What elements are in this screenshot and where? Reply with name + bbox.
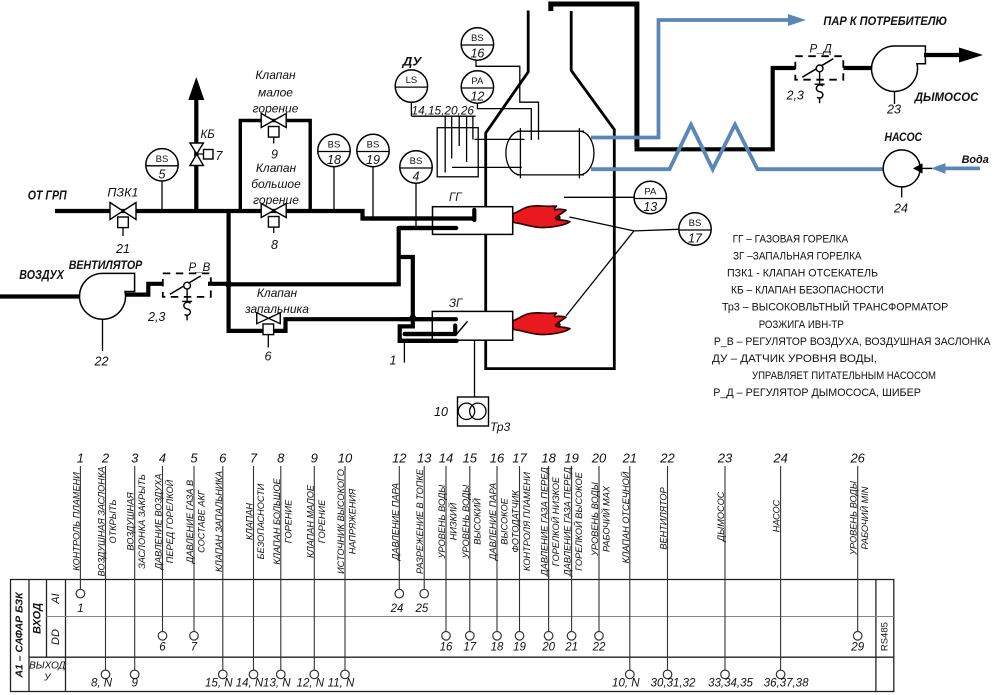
regulator Р_В (147, 262, 211, 324)
flame ГГ (513, 206, 570, 228)
svg-text:BS: BS (689, 218, 702, 229)
svg-text:КЛАПАН ОТСЕЧНОЙ: КЛАПАН ОТСЕЧНОЙ (620, 471, 631, 563)
node signal column 16 (488, 451, 510, 654)
svg-text:ЗГ: ЗГ (449, 298, 463, 310)
node signal column 3 (126, 451, 148, 690)
svg-text:22: 22 (659, 451, 675, 466)
svg-text:6: 6 (265, 350, 272, 364)
arrow КБ vent (189, 79, 204, 100)
svg-text:21: 21 (564, 642, 578, 654)
pipe main gas line from ОТ ГРП (55, 211, 474, 219)
svg-text:3: 3 (131, 451, 139, 466)
svg-text:9: 9 (311, 451, 318, 466)
svg-text:12: 12 (470, 90, 484, 104)
svg-text:18: 18 (327, 153, 341, 167)
wire BS16 stem (476, 60, 539, 139)
svg-text:BS: BS (367, 140, 380, 151)
svg-text:Тр3 – ВЫСОКОВЛЬТНЫЙ ТРАНСФОРМА: Тр3 – ВЫСОКОВЛЬТНЫЙ ТРАНСФОРМАТОР (722, 301, 948, 314)
table AI/DD divider (47, 616, 894, 618)
svg-text:Тр3: Тр3 (490, 420, 511, 434)
svg-text:9: 9 (131, 678, 138, 690)
node signal column 4 (154, 451, 176, 654)
svg-text:ДУ: ДУ (401, 55, 422, 69)
svg-text:BS: BS (471, 33, 484, 44)
svg-text:16: 16 (440, 642, 453, 654)
node signal column 1 (71, 451, 84, 616)
node signal column 14 (437, 451, 459, 654)
svg-text:7: 7 (216, 149, 224, 163)
node signal column 13 (415, 451, 433, 616)
svg-text:1: 1 (77, 603, 83, 615)
svg-text:УРОВЕНЬ ВОДЫ: УРОВЕНЬ ВОДЫ (590, 481, 600, 557)
svg-text:8: 8 (277, 451, 285, 466)
instrument BS17 (679, 213, 711, 246)
svg-text:Р_В: Р_В (189, 262, 211, 274)
svg-text:Клапан: Клапан (256, 161, 297, 175)
svg-text:24: 24 (390, 603, 404, 615)
svg-text:ВЕНТИЛЯТОР: ВЕНТИЛЯТОР (659, 486, 669, 549)
svg-text:ДАВЛЕНИЕ ГАЗА В: ДАВЛЕНИЕ ГАЗА В (185, 480, 195, 564)
svg-text:ВЫСОКИЙ: ВЫСОКИЙ (471, 498, 482, 545)
svg-text:РАБОЧИЙ MIN: РАБОЧИЙ MIN (859, 486, 870, 549)
chimney cap thick (551, 4, 637, 147)
svg-text:ВХОД: ВХОД (32, 603, 44, 634)
wire BS5 stem (161, 181, 163, 211)
pump НАСОС (883, 130, 932, 215)
pipe ЗГ pipes over box (400, 319, 457, 341)
svg-text:6: 6 (219, 451, 227, 466)
svg-text:ГОРЕЛКОЙ НИЗКОЕ: ГОРЕЛКОЙ НИЗКОЕ (550, 476, 561, 566)
svg-text:19: 19 (513, 642, 526, 654)
steam line to consumer (blue) (591, 20, 788, 138)
svg-text:18: 18 (491, 642, 504, 654)
svg-text:23: 23 (717, 451, 733, 466)
svg-text:ДАВЛЕНИЕ ПАРА: ДАВЛЕНИЕ ПАРА (488, 483, 498, 561)
junction dot air/gas (225, 281, 232, 288)
svg-text:ПЗК1 - КЛАПАН ОТСЕКАТЕЛЬ: ПЗК1 - КЛАПАН ОТСЕКАТЕЛЬ (727, 268, 878, 280)
pipe ЗГ lower manifold (400, 319, 457, 341)
pipe ГГ pipes over box (363, 210, 475, 228)
node signal column 5 (185, 451, 207, 654)
svg-text:запальника: запальника (244, 302, 309, 316)
svg-text:1: 1 (77, 451, 84, 466)
instrument BS19 (357, 134, 389, 167)
instrument PA12 (461, 71, 493, 104)
svg-text:малое: малое (258, 86, 293, 100)
wire BS19 stem (372, 167, 374, 219)
svg-text:2,3: 2,3 (147, 310, 165, 324)
node signal column 21 (612, 451, 640, 690)
svg-text:ПЕРЕД ГОРЕЛКОЙ: ПЕРЕД ГОРЕЛКОЙ (164, 479, 175, 563)
svg-text:ПАР К ПОТРЕБИТЕЛЮ: ПАР К ПОТРЕБИТЕЛЮ (823, 14, 947, 28)
svg-text:ДЫМОСОС: ДЫМОСОС (716, 491, 726, 542)
svg-text:10, N: 10, N (612, 678, 640, 690)
svg-text:ГОРЕНИЕ: ГОРЕНИЕ (317, 499, 327, 543)
burner ГГ box (433, 207, 513, 235)
svg-text:ВОЗДУШНАЯ: ВОЗДУШНАЯ (126, 492, 136, 551)
instrument BS4 (400, 151, 432, 184)
svg-text:ПЗК1: ПЗК1 (107, 188, 138, 200)
node 14,15,20,26 sensor bundle (412, 116, 525, 177)
svg-text:30,31,32: 30,31,32 (651, 678, 696, 690)
svg-text:17: 17 (463, 642, 476, 654)
feedwater line with economizer zigzag (blue) (591, 125, 883, 170)
svg-text:ДАВЛЕНИЕ ПАРА: ДАВЛЕНИЕ ПАРА (390, 483, 400, 561)
svg-text:КЛАПАН БОЛЬШОЕ: КЛАПАН БОЛЬШОЕ (272, 478, 282, 565)
svg-text:14: 14 (439, 451, 453, 466)
svg-text:26: 26 (849, 451, 865, 466)
node signal column 22 (651, 451, 696, 690)
svg-text:НАСОС: НАСОС (772, 499, 782, 532)
valve Клапан малое горение (261, 114, 286, 162)
wire stem to 1 (403, 341, 405, 363)
svg-text:большое: большое (251, 177, 301, 191)
svg-text:ОТКРЫТЬ: ОТКРЫТЬ (108, 499, 118, 543)
node signal column 19 (563, 451, 585, 654)
svg-text:горение: горение (253, 193, 299, 207)
node signal column 24 (764, 451, 809, 690)
svg-text:13: 13 (417, 451, 432, 466)
svg-text:ДАВЛЕНИЕ ГАЗА ПЕРЕД: ДАВЛЕНИЕ ГАЗА ПЕРЕД (540, 467, 550, 577)
svg-text:RS485: RS485 (879, 622, 890, 651)
svg-text:РАЗРЕЖЕНИЕ В ТОПКЕ: РАЗРЕЖЕНИЕ В ТОПКЕ (415, 468, 425, 574)
node signal column 8 (263, 451, 293, 690)
svg-text:33,34,35: 33,34,35 (708, 678, 753, 690)
svg-text:4: 4 (413, 170, 420, 184)
svg-text:КБ – КЛАПАН БЕЗОПАСНОСТИ: КБ – КЛАПАН БЕЗОПАСНОСТИ (731, 285, 884, 297)
svg-text:BS: BS (328, 140, 341, 151)
svg-text:4: 4 (159, 451, 166, 466)
svg-text:5: 5 (190, 451, 198, 466)
svg-text:17: 17 (512, 451, 527, 466)
svg-text:7: 7 (250, 451, 258, 466)
svg-text:УРОВЕНЬ ВОДЫ: УРОВЕНЬ ВОДЫ (461, 484, 471, 560)
svg-text:ОТ ГРП: ОТ ГРП (28, 189, 68, 203)
svg-text:КЛАПАН ЗАПАЛЬНИКА: КЛАПАН ЗАПАЛЬНИКА (214, 471, 224, 572)
node signal column 2 (91, 451, 118, 690)
svg-text:РОЗЖИГА ИВН-ТР: РОЗЖИГА ИВН-ТР (759, 319, 844, 331)
boiler drum (506, 128, 594, 178)
svg-text:Р_Д – РЕГУЛЯТОР ДЫМОСОСА, ШИБЕ: Р_Д – РЕГУЛЯТОР ДЫМОСОСА, ШИБЕР (713, 387, 921, 399)
svg-text:24: 24 (893, 202, 908, 216)
svg-text:22: 22 (94, 355, 109, 369)
table header texts (13, 591, 890, 684)
valve Клапан большое горение (261, 204, 286, 253)
node signal column 26 (849, 451, 871, 654)
svg-text:ГОРЕЛКОЙ ВЫСОКОЕ: ГОРЕЛКОЙ ВЫСОКОЕ (573, 471, 584, 570)
wire LS stem (410, 102, 412, 116)
svg-text:15: 15 (463, 451, 478, 466)
wire BS17 leads (566, 217, 678, 316)
regulator Р_Д (786, 44, 844, 104)
svg-text:36,37,38: 36,37,38 (764, 678, 809, 690)
svg-text:6: 6 (159, 642, 166, 654)
svg-text:PA: PA (644, 187, 657, 198)
node signal column 10 (328, 451, 358, 690)
svg-text:Клапан: Клапан (255, 68, 296, 82)
svg-text:КЛАПАН: КЛАПАН (245, 503, 255, 540)
instrument LS ДУ (395, 70, 427, 102)
node signal column 23 (708, 451, 753, 690)
svg-text:РАБОЧИЙ MAX: РАБОЧИЙ MAX (601, 485, 612, 552)
svg-text:7: 7 (191, 642, 198, 654)
svg-text:А1 – САФАР БЗК: А1 – САФАР БЗК (13, 591, 25, 679)
node signal column 15 (461, 451, 483, 654)
svg-text:КОНТРОЛЬ ПЛАМЕНИ: КОНТРОЛЬ ПЛАМЕНИ (71, 472, 81, 571)
instrument BS5 (146, 149, 178, 182)
wire BS4 stem (415, 183, 417, 227)
svg-text:НИЗКИЙ: НИЗКИЙ (448, 502, 459, 540)
svg-text:ФОТОДАТЧИК: ФОТОДАТЧИК (511, 490, 521, 553)
pipe КБ safety riser (194, 100, 198, 211)
svg-text:ВОЗДУХ: ВОЗДУХ (19, 268, 64, 282)
junction dot ЗГ pipe (409, 315, 416, 322)
svg-text:ЗАСЛОНКА ЗАКРЫТЬ: ЗАСЛОНКА ЗАКРЫТЬ (137, 474, 147, 569)
svg-text:14, N: 14, N (236, 678, 264, 690)
svg-text:LS: LS (406, 75, 418, 86)
pipe ЗГ middle (405, 326, 456, 335)
valve Клапан запальника (257, 313, 281, 324)
svg-text:9: 9 (271, 148, 278, 162)
transformer Тр3 (434, 397, 511, 434)
svg-text:13: 13 (643, 200, 657, 214)
instrument BS18 (318, 134, 350, 167)
svg-text:20: 20 (591, 451, 607, 466)
svg-text:25: 25 (415, 603, 429, 615)
node signal column 17 (511, 451, 533, 654)
svg-text:5: 5 (159, 167, 166, 181)
svg-text:ГГ – ГАЗОВАЯ ГОРЕЛКА: ГГ – ГАЗОВАЯ ГОРЕЛКА (733, 234, 849, 246)
svg-text:16: 16 (470, 47, 484, 61)
flue duct to Р_Д (635, 68, 796, 151)
svg-text:ИСТОЧНИК ВЫСОКОГО: ИСТОЧНИК ВЫСОКОГО (336, 469, 346, 574)
svg-text:УПРАВЛЯЕТ ПИТАТЕЛЬНЫМ НАСОСОМ: УПРАВЛЯЕТ ПИТАТЕЛЬНЫМ НАСОСОМ (752, 370, 936, 382)
wire PA13 lead (564, 196, 634, 198)
svg-text:13, N: 13, N (263, 678, 291, 690)
svg-text:PA: PA (471, 76, 484, 87)
node signal column 7 (236, 451, 266, 690)
svg-text:16: 16 (490, 451, 505, 466)
svg-text:24: 24 (772, 451, 787, 466)
pipe fan outlet to Р_В (121, 284, 164, 295)
fan ВЕНТИЛЯТОР (80, 273, 135, 319)
svg-text:КБ: КБ (201, 129, 216, 141)
node signal column 18 (540, 451, 562, 654)
svg-text:12, N: 12, N (297, 678, 325, 690)
svg-text:1: 1 (390, 354, 397, 368)
svg-text:УРОВЕНЬ ВОДЫ: УРОВЕНЬ ВОДЫ (437, 484, 447, 560)
svg-text:ГГ: ГГ (449, 192, 462, 204)
svg-text:УРОВЕНЬ ВОДЫ: УРОВЕНЬ ВОДЫ (849, 480, 859, 556)
svg-text:10: 10 (434, 405, 448, 419)
svg-text:ВОЗДУШНАЯ ЗАСЛОНКА: ВОЗДУШНАЯ ЗАСЛОНКА (97, 467, 107, 577)
svg-text:ДУ – ДАТЧИК УРОВНЯ ВОДЫ,: ДУ – ДАТЧИК УРОВНЯ ВОДЫ, (712, 353, 877, 365)
valve ПЗК1 (110, 203, 136, 257)
svg-text:2,3: 2,3 (786, 89, 804, 103)
svg-text:BS: BS (410, 156, 423, 167)
svg-text:Р_В – РЕГУЛЯТОР ВОЗДУХА, ВОЗДУ: Р_В – РЕГУЛЯТОР ВОЗДУХА, ВОЗДУШНАЯ ЗАСЛО… (714, 336, 991, 348)
svg-text:Клапан: Клапан (257, 286, 298, 300)
svg-text:ДЫМОСОС: ДЫМОСОС (914, 90, 979, 104)
svg-text:ВЫСОКОЕ: ВЫСОКОЕ (500, 497, 510, 544)
svg-text:29: 29 (850, 642, 864, 654)
pipe ГГ upper end upturn (472, 210, 476, 220)
valve запальника actuator square (263, 324, 274, 335)
svg-text:НАСОС: НАСОС (885, 130, 923, 144)
svg-text:СОСТАВЕ АКГ: СОСТАВЕ АКГ (197, 489, 207, 553)
pipe air duct from ВОЗДУХ (0, 294, 80, 298)
pipe Р_В to junction (208, 282, 229, 286)
controller table frame А1-САФАР БЗК (11, 580, 894, 692)
fan ДЫМОСОС (872, 46, 926, 91)
node signal column 6 (205, 451, 233, 690)
svg-text:19: 19 (366, 153, 380, 167)
node signal column 20 (590, 451, 612, 654)
igniter electrode slash (457, 321, 468, 334)
svg-text:23: 23 (886, 103, 901, 117)
svg-text:БЕЗОПАСНОСТИ: БЕЗОПАСНОСТИ (256, 483, 266, 559)
instrument BS16 (461, 28, 493, 61)
node signal column 9 (297, 451, 327, 690)
svg-text:Р_Д: Р_Д (810, 44, 832, 56)
svg-text:8, N: 8, N (91, 678, 113, 690)
svg-text:14,15,20,26: 14,15,20,26 (412, 106, 475, 118)
pipe Р_В air branch (229, 228, 413, 317)
boiler chimney and furnace outline left (486, 11, 615, 369)
svg-text:11, N: 11, N (328, 678, 355, 690)
flame ЗГ (513, 313, 570, 335)
svg-text:20: 20 (541, 642, 555, 654)
svg-text:21: 21 (115, 242, 130, 256)
svg-text:ВЫХОД: ВЫХОД (29, 661, 65, 672)
wire ЗГ to Тр3 (474, 340, 476, 397)
burner ЗГ box (432, 311, 512, 340)
arrow flue gas out (924, 53, 962, 57)
svg-text:18: 18 (541, 451, 556, 466)
svg-text:ДАВЛЕНИЕ ВОЗДУХА: ДАВЛЕНИЕ ВОЗДУХА (154, 474, 164, 571)
svg-text:BS: BS (156, 154, 169, 165)
valve КБ (vertical) (190, 129, 224, 166)
svg-text:15, N: 15, N (205, 678, 233, 690)
svg-text:ЗГ –ЗАПАЛЬНАЯ ГОРЕЛКА: ЗГ –ЗАПАЛЬНАЯ ГОРЕЛКА (733, 251, 862, 263)
pipe big/small burn loop (240, 121, 310, 212)
svg-text:НАПРЯЖЕНИЯ: НАПРЯЖЕНИЯ (348, 488, 358, 554)
svg-text:2: 2 (101, 451, 110, 466)
pipe gas drop to igniter valve (229, 211, 456, 331)
svg-text:12: 12 (392, 451, 407, 466)
svg-text:17: 17 (688, 232, 703, 246)
svg-text:10: 10 (338, 451, 353, 466)
node signal column 12 (390, 451, 408, 616)
flue duct Р_Д to ДЫМОСОС (843, 66, 872, 70)
water inlet arrow (blue) (943, 166, 980, 170)
svg-text:горение: горение (253, 102, 299, 116)
svg-text:DD: DD (50, 629, 62, 645)
svg-text:22: 22 (592, 642, 606, 654)
svg-text:ВЕНТИЛЯТОР: ВЕНТИЛЯТОР (69, 258, 143, 272)
wire BS18 stem (333, 167, 335, 211)
svg-text:8: 8 (271, 238, 278, 252)
svg-text:ГОРЕНИЕ: ГОРЕНИЕ (283, 499, 293, 543)
pipe ГГ lower (399, 226, 457, 230)
svg-text:КОНТРОЛЯ ПЛАМЕНИ: КОНТРОЛЯ ПЛАМЕНИ (522, 472, 532, 571)
svg-text:AI: AI (50, 593, 62, 604)
svg-text:ДАВЛЕНИЕ ГАЗА ПЕРЕД: ДАВЛЕНИЕ ГАЗА ПЕРЕД (563, 467, 573, 577)
svg-text:КЛАПАН МАЛОЕ: КЛАПАН МАЛОЕ (305, 484, 315, 558)
svg-text:21: 21 (622, 451, 637, 466)
instrument PA13 (634, 181, 666, 214)
svg-text:Вода: Вода (962, 154, 989, 166)
svg-text:19: 19 (564, 451, 578, 466)
wire PA12 stem (477, 103, 531, 140)
